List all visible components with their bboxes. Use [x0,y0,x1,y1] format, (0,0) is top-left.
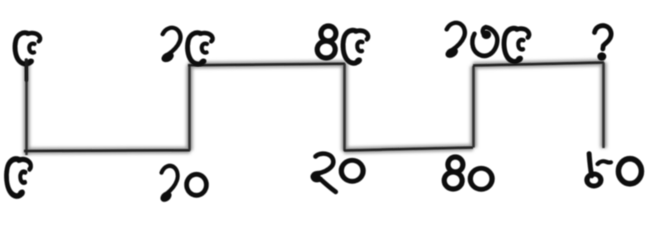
wire: vertical down at 45/20 [343,64,345,152]
wire halo: bottom horizontal 20 -> 40 [344,148,473,151]
wire halo: vertical up at 10/15 [186,65,193,150]
wire: left vertical from top 5 down [25,62,27,155]
number 20 (bottom) [311,154,336,192]
wire halo: left vertical from top 5 down [23,62,30,155]
number 5 (top-left) [15,33,40,67]
question mark (top-right) [595,26,612,61]
wire halo: bottom horizontal 5 -> 10 [24,147,190,154]
number 15 (top) [159,28,180,64]
number 80 (bottom-right) [587,154,611,187]
wire: top horizontal 15 -> 45 [188,64,345,65]
wire: bottom horizontal 5 -> 10 [24,149,190,152]
wire halo: right vertical ? down to 80 [600,63,607,149]
number 135 (top) [443,23,464,60]
wire halo: vertical up at 40/135 [470,66,477,148]
wire: bottom horizontal 20 -> 40 [344,148,473,151]
number 10 (bottom) [159,166,178,204]
wire halo: top horizontal 15 -> 45 [188,64,345,65]
number 45 (top) [317,26,336,58]
wire halo: vertical down at 45/20 [341,64,348,152]
wire: top horizontal 135 -> ? [473,63,604,66]
wire halo: top horizontal 135 -> ? [473,63,604,66]
stem joining top-left 5 to wire [25,60,29,80]
wire: right vertical ? down to 80 [602,63,604,149]
number 40 (bottom) [444,157,463,189]
wire: vertical up at 40/135 [472,66,474,148]
number 5 (bottom-left) [6,159,30,199]
wire: vertical up at 10/15 [188,65,190,150]
